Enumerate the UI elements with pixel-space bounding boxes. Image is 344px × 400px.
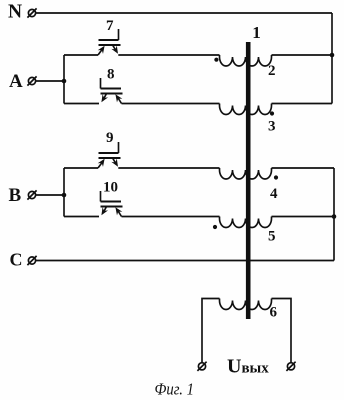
winding 3 bbox=[220, 104, 272, 115]
wire winding 2 right bbox=[272, 54, 333, 56]
core 1 bbox=[246, 42, 251, 319]
svg-text:3: 3 bbox=[268, 119, 276, 135]
wire winding 5 right bbox=[272, 216, 335, 218]
svg-text:10: 10 bbox=[103, 180, 118, 196]
wire branch 7 left bbox=[64, 54, 98, 56]
wire N horizontal bbox=[36, 12, 332, 14]
svg-text:6: 6 bbox=[270, 305, 278, 321]
wire C horizontal bbox=[36, 260, 334, 262]
svg-text:A: A bbox=[9, 71, 23, 92]
svg-text:C: C bbox=[10, 250, 23, 270]
svg-text:N: N bbox=[8, 2, 22, 23]
terminal B bbox=[27, 190, 36, 199]
wire winding 6 left bbox=[202, 299, 220, 363]
terminal C bbox=[27, 256, 36, 265]
svg-text:Фиг. 1: Фиг. 1 bbox=[155, 380, 195, 399]
wire A to junction bbox=[36, 80, 64, 82]
winding 6 bbox=[220, 299, 272, 310]
triac 10 bbox=[99, 191, 123, 217]
wire A branch vertical bbox=[63, 55, 65, 104]
wire branch 8 right bbox=[122, 103, 220, 105]
wire right vertical (N bus) bbox=[331, 13, 333, 104]
wire branch 9 left bbox=[64, 167, 98, 169]
node A junction bbox=[62, 79, 67, 84]
svg-text:2: 2 bbox=[268, 63, 276, 79]
svg-text:Uвых: Uвых bbox=[227, 356, 269, 378]
terminal output right bbox=[286, 362, 295, 371]
winding 2 bbox=[220, 55, 272, 66]
svg-text:7: 7 bbox=[106, 18, 114, 34]
node polarity dot winding 4 bbox=[274, 175, 278, 179]
svg-text:5: 5 bbox=[268, 228, 276, 244]
wire B to junction bbox=[36, 194, 64, 196]
wire branch 10 right bbox=[122, 216, 220, 218]
winding 4 bbox=[220, 168, 272, 179]
svg-text:1: 1 bbox=[252, 23, 260, 42]
svg-text:B: B bbox=[9, 185, 22, 206]
node polarity dot winding 3 bbox=[270, 111, 274, 115]
svg-text:4: 4 bbox=[270, 186, 278, 202]
wire winding 3 right bbox=[272, 103, 333, 105]
terminal A bbox=[27, 76, 36, 85]
svg-text:9: 9 bbox=[106, 130, 114, 146]
wire branch 10 left bbox=[64, 216, 99, 218]
winding 5 bbox=[220, 217, 272, 228]
wire branch 9 right bbox=[118, 167, 219, 169]
node polarity dot winding 2 bbox=[214, 58, 218, 62]
node B junction bbox=[62, 193, 67, 198]
node polarity dot winding 5 bbox=[213, 225, 217, 229]
terminal N bbox=[27, 8, 36, 17]
node junction C bus / winding 5 bbox=[332, 214, 337, 219]
wire right vertical (C bus) bbox=[333, 168, 335, 261]
triac 8 bbox=[99, 78, 123, 104]
wire branch 7 right bbox=[118, 54, 219, 56]
triac 9 bbox=[98, 142, 121, 168]
wire winding 4 right bbox=[272, 167, 335, 169]
wire branch 8 left bbox=[64, 103, 99, 105]
wire B branch vertical bbox=[63, 168, 65, 217]
wire winding 6 right bbox=[272, 299, 292, 363]
terminal output left bbox=[197, 362, 206, 371]
triac 7 bbox=[98, 29, 121, 55]
svg-text:8: 8 bbox=[107, 67, 115, 83]
node junction N bus / winding 2 bbox=[330, 53, 335, 58]
